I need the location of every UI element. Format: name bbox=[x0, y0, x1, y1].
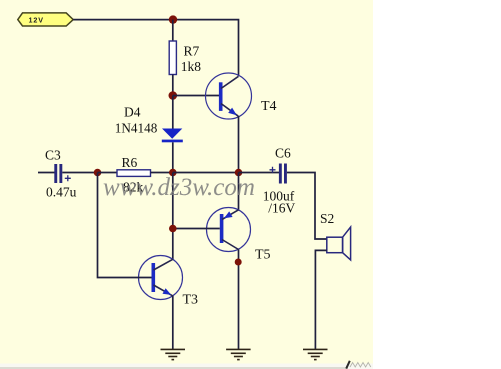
svg-text:R6: R6 bbox=[122, 155, 138, 170]
wire C3 to node bbox=[62, 172, 97, 174]
wire node down to T5 emitter bbox=[238, 173, 240, 210]
schematic background bbox=[0, 0, 373, 364]
wire T4 emitter down to rail bbox=[238, 116, 240, 173]
wire C6 to speaker top bbox=[287, 173, 327, 240]
wire R7 bottom to node bbox=[172, 75, 174, 96]
torn corner decoration bottom right bbox=[350, 363, 371, 368]
speaker S2 bbox=[320, 211, 351, 260]
power flag 12V bbox=[18, 13, 73, 26]
transistor T3 (NPN) bbox=[139, 256, 199, 308]
transistor T4 (NPN) bbox=[206, 73, 277, 119]
svg-text:12V: 12V bbox=[29, 16, 45, 25]
wire node to C6 bbox=[239, 172, 280, 174]
svg-text:1N4148: 1N4148 bbox=[115, 120, 158, 135]
wire T5 collector to ground bbox=[238, 250, 240, 350]
wire top rail from 12V flag to corner bbox=[73, 20, 238, 76]
svg-text:T5: T5 bbox=[255, 248, 271, 263]
svg-text:C6: C6 bbox=[275, 146, 291, 161]
transistor T5 (PNP) bbox=[207, 208, 271, 263]
wire rail node to node bbox=[173, 172, 239, 174]
resistor R6 bbox=[117, 155, 151, 195]
wire T5 base bbox=[173, 228, 220, 230]
svg-text:www.dz3w.com: www.dz3w.com bbox=[103, 174, 255, 201]
node junction R7/D4/T4 base bbox=[169, 91, 178, 100]
diode D4 bbox=[115, 105, 183, 143]
wire node to R6 bbox=[98, 172, 118, 174]
wire T3 base from C3 node bbox=[98, 173, 152, 278]
svg-text:1k8: 1k8 bbox=[181, 59, 202, 74]
wire R6 to node bbox=[151, 172, 173, 174]
node junction rail/D4 bbox=[169, 169, 177, 177]
ground (T5 collector) bbox=[226, 349, 251, 359]
wire input left segment bbox=[38, 172, 55, 174]
svg-text:R7: R7 bbox=[184, 44, 200, 59]
svg-text:C3: C3 bbox=[45, 148, 61, 163]
svg-text:0.47u: 0.47u bbox=[46, 185, 77, 200]
wire rail node down to T3 collector bbox=[172, 173, 174, 260]
node junction C3/T3 base bbox=[94, 169, 102, 177]
node junction at R7 top bbox=[169, 15, 177, 23]
svg-text:D4: D4 bbox=[124, 105, 141, 120]
resistor R7 bbox=[169, 41, 176, 75]
wire R7 column top bbox=[172, 20, 174, 41]
node junction below T5 bbox=[235, 259, 242, 266]
svg-text:S2: S2 bbox=[320, 211, 334, 226]
wire T3 emitter to ground bbox=[172, 296, 174, 349]
svg-text:T4: T4 bbox=[261, 99, 277, 114]
capacitor C6 bbox=[263, 146, 296, 216]
node junction rail/T4 emitter/T5 bbox=[235, 169, 243, 177]
svg-text:T3: T3 bbox=[183, 293, 199, 308]
capacitor C3 bbox=[45, 148, 77, 200]
ground (speaker) bbox=[303, 349, 328, 359]
wire D4 cathode to rail bbox=[172, 142, 174, 172]
node junction T5 base/T3 collector bbox=[169, 225, 177, 233]
ground (T3 emitter) bbox=[161, 349, 186, 359]
wire node to diode D4 bbox=[172, 96, 174, 130]
wire speaker bottom to ground bbox=[315, 250, 326, 349]
wire T4 base bbox=[173, 95, 219, 97]
svg-text:/16V: /16V bbox=[268, 201, 295, 216]
